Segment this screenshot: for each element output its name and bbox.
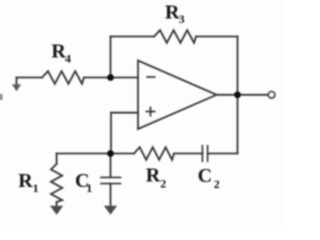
edge artifact	[0, 94, 3, 100]
wire right vertical (R3 to bottom feedback)	[237, 37, 239, 154]
op-amp minus sign	[147, 76, 154, 78]
wire R4 to inverting input	[84, 77, 138, 79]
wire C1 bottom stub	[110, 184, 112, 207]
wire top horizontal right of R3	[196, 36, 238, 38]
wire non-inverting input horizontal	[111, 112, 138, 114]
svg-text:C: C	[198, 165, 212, 187]
capacitor C2	[202, 146, 207, 162]
svg-text:3: 3	[179, 12, 185, 26]
svg-text:1: 1	[86, 181, 92, 195]
wire node C to R2	[111, 153, 135, 155]
wire ground stub left	[16, 78, 18, 86]
ground (left, at R4)	[12, 84, 21, 91]
svg-text:R: R	[18, 170, 33, 192]
svg-text:4: 4	[65, 52, 71, 66]
wire R4 left segment	[17, 77, 43, 79]
wire non-inverting input vertical to node C	[110, 113, 112, 154]
svg-text:1: 1	[33, 181, 39, 195]
op-amp U1	[138, 61, 217, 130]
resistor R3	[154, 30, 196, 43]
resistor R1	[51, 164, 62, 202]
wire node C to C1	[110, 154, 112, 178]
svg-text:2: 2	[214, 177, 220, 191]
output terminal circle	[268, 92, 274, 98]
svg-text:R: R	[146, 165, 161, 187]
node B (output junction)	[234, 91, 241, 98]
wire top horizontal left of R3	[111, 36, 155, 38]
wire C2 to right vertical	[208, 153, 238, 155]
wire R1 bottom stub	[56, 202, 58, 207]
wire top-left vertical (node A to R3 wire)	[110, 37, 112, 78]
resistor R2	[134, 147, 174, 160]
node A (junction at inverting input)	[107, 74, 114, 81]
wire output	[217, 94, 269, 96]
wire R1 top stub	[56, 154, 58, 165]
resistor R4	[42, 71, 84, 84]
capacitor C1	[101, 177, 121, 183]
ground (below C1)	[104, 206, 117, 215]
node C (junction at R1/C1/R2)	[107, 150, 114, 157]
op-amp plus sign	[146, 107, 154, 115]
wire bottom: node C to R1	[57, 153, 111, 155]
wire R2 to C2	[174, 153, 202, 155]
ground (below R1)	[50, 206, 63, 215]
svg-text:2: 2	[160, 177, 166, 191]
